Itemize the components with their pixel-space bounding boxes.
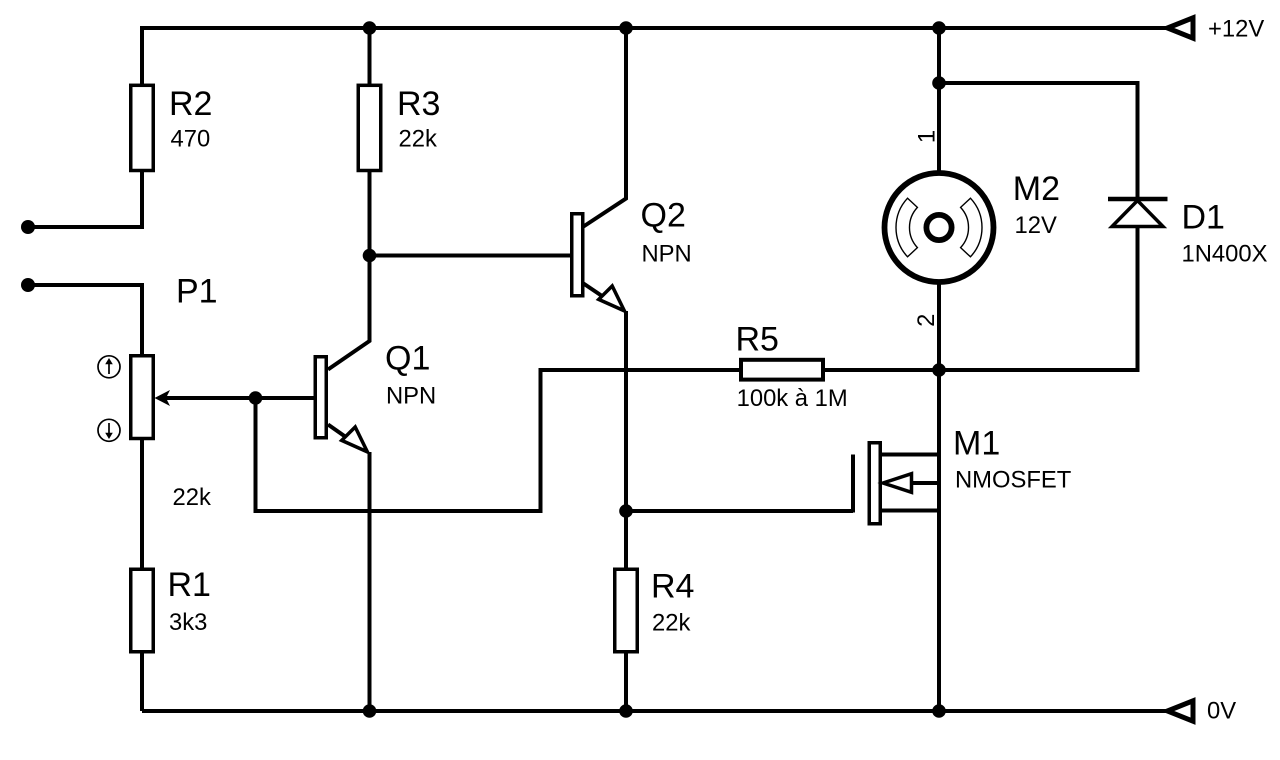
wire input terminal 2 to P1 top	[30, 285, 142, 356]
svg-text:P1: P1	[176, 273, 218, 311]
wire R5 right to node B	[823, 368, 939, 372]
P1 wiper arrow	[155, 390, 171, 406]
svg-text:2: 2	[913, 314, 940, 327]
junction dot M2 / D1 branch	[932, 76, 946, 90]
svg-text:22k: 22k	[173, 484, 211, 511]
Q1 emitter arrowhead	[342, 427, 368, 452]
M1 body arrow line	[908, 481, 939, 485]
svg-text:R2: R2	[169, 85, 212, 123]
wire Q2 emitter down to R4	[624, 311, 628, 569]
input terminal dot 1	[21, 220, 35, 234]
junction dot top rail / Q2 collector	[619, 21, 633, 35]
svg-text:R5: R5	[736, 321, 779, 359]
svg-text:12V: 12V	[1015, 212, 1057, 239]
potentiometer P1 body	[131, 356, 154, 439]
P1 ccw rotation mark (circled down arrow)	[98, 419, 120, 441]
Q2 emitter arrowhead	[599, 286, 625, 311]
wire top rail to M2 motor	[937, 28, 941, 175]
svg-text:M1: M1	[953, 425, 1000, 463]
svg-text:R4: R4	[651, 568, 694, 606]
svg-text:+12V: +12V	[1208, 15, 1264, 42]
junction dot R3 / Q2 base	[363, 249, 377, 263]
svg-text:3k3: 3k3	[169, 609, 207, 636]
wire Q2 collector	[584, 28, 627, 227]
svg-text:1: 1	[914, 130, 941, 143]
svg-text:Q2: Q2	[641, 197, 686, 235]
wire Q2 base from R3 node	[370, 254, 571, 258]
motor M2 outer circle	[885, 173, 994, 282]
wire P1 bottom to R1 top	[140, 439, 144, 570]
svg-text:22k: 22k	[652, 610, 690, 637]
resistor R4 body	[615, 569, 638, 652]
wire Q1 emitter to 0V rail	[368, 452, 372, 711]
svg-text:NMOSFET: NMOSFET	[955, 467, 1071, 494]
wire R3 bottom to Q1 collector	[328, 171, 370, 370]
wire R2 bottom to input terminal 1	[30, 171, 142, 228]
wire M2 bottom to node B	[937, 280, 941, 370]
wire top rail to R3	[368, 28, 372, 85]
motor M2 left brush arc	[896, 198, 917, 257]
resistor R2 body	[131, 85, 154, 170]
junction dot top rail / M2	[932, 21, 946, 35]
svg-text:NPN: NPN	[642, 241, 692, 268]
wire M1 drain-source vertical to 0V rail	[937, 370, 941, 711]
svg-text:R3: R3	[397, 85, 440, 123]
wire node A down, right, up to R5 left	[256, 370, 742, 511]
M1 source wire	[882, 509, 939, 513]
junction dot node B (R5 / M2 / D1 / M1 drain)	[932, 363, 946, 377]
resistor R5 body	[741, 360, 823, 380]
+12V supply terminal triangle	[1168, 18, 1194, 38]
P1 cw rotation mark (circled up arrow)	[98, 356, 120, 378]
svg-text:Q1: Q1	[385, 340, 430, 378]
wire wiper to node A	[163, 396, 256, 400]
M1 gate bar	[851, 455, 855, 513]
mosfet M1 channel bar	[869, 443, 880, 524]
diode D1 triangle	[1112, 201, 1163, 227]
motor M2 right brush arc	[961, 198, 982, 257]
Q2 emitter wire	[584, 284, 623, 310]
svg-text:470: 470	[171, 126, 211, 153]
wire D1 anode to node B	[939, 227, 1138, 371]
junction dot R4 / 0V rail	[619, 704, 633, 718]
transistor Q2 base bar	[572, 214, 583, 296]
svg-text:0V: 0V	[1207, 697, 1236, 724]
junction dot Q1 emitter / 0V rail	[363, 704, 377, 718]
svg-text:22k: 22k	[399, 126, 437, 153]
0V supply terminal triangle	[1168, 701, 1194, 721]
wire bottom rail 0V	[142, 709, 1168, 713]
svg-text:M2: M2	[1013, 170, 1060, 208]
junction dot M1 source / 0V rail	[932, 704, 946, 718]
junction dot top rail / R3	[363, 21, 377, 35]
resistor R3 body	[358, 85, 381, 170]
transistor Q1 base bar	[315, 357, 326, 438]
M1 body arrowhead	[883, 474, 912, 493]
diode D1 cathode bar	[1108, 197, 1168, 202]
motor M2 commutator inner circle	[926, 215, 951, 240]
wire Q1 base	[256, 396, 314, 400]
wire R1 bottom to 0V rail	[140, 652, 144, 711]
svg-text:D1: D1	[1182, 199, 1225, 237]
junction dot Q2 emitter / M1 gate	[619, 504, 633, 518]
input terminal dot 2	[21, 278, 35, 292]
node A junction dot (wiper / Q1 base)	[249, 391, 263, 405]
wire M1 gate	[626, 509, 853, 513]
wire R4 bottom to 0V rail	[624, 652, 628, 711]
Q1 emitter wire	[328, 425, 365, 451]
resistor R1 body	[131, 569, 154, 652]
svg-text:R1: R1	[168, 566, 211, 604]
wire D1 branch top	[939, 83, 1138, 199]
svg-text:100k à 1M: 100k à 1M	[737, 385, 848, 412]
wire top rail +12V with R2 top lead	[142, 28, 1168, 86]
svg-text:1N400X: 1N400X	[1182, 241, 1268, 268]
M1 drain wire	[882, 453, 939, 457]
svg-text:NPN: NPN	[386, 383, 436, 410]
